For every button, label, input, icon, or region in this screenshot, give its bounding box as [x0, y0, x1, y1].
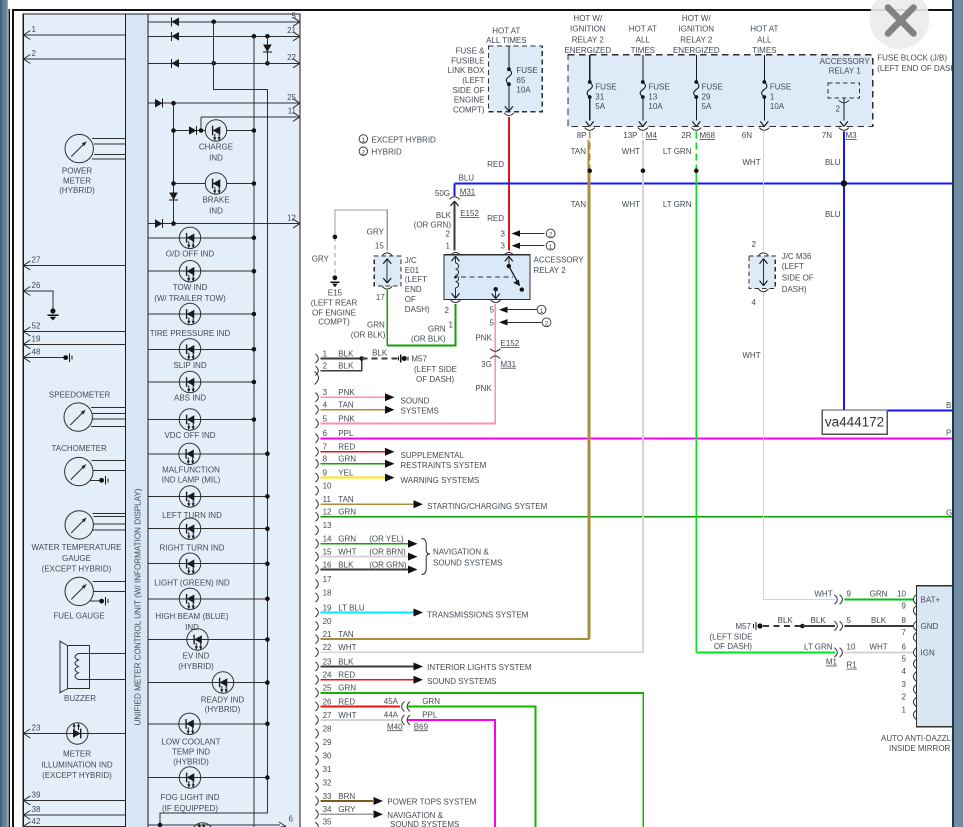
- wire x213 vertical with step: [214, 22, 268, 90]
- svg-text:GRN: GRN: [422, 697, 440, 706]
- svg-text:M31: M31: [501, 360, 517, 369]
- svg-text:24: 24: [323, 671, 332, 680]
- WHT wire R1 to mirror IGN: [845, 651, 914, 653]
- svg-text:16: 16: [323, 560, 332, 569]
- svg-text:BLK: BLK: [338, 349, 354, 358]
- svg-text:COMPT): COMPT): [318, 318, 350, 327]
- unified meter control unit bar: [126, 14, 149, 827]
- pin 38 wire: [23, 814, 125, 816]
- svg-text:M31: M31: [460, 187, 476, 196]
- svg-text:25: 25: [323, 684, 332, 693]
- svg-text:GRN: GRN: [367, 321, 385, 330]
- svg-text:ENGINE: ENGINE: [454, 96, 485, 105]
- pin26 RED wire: [321, 706, 401, 708]
- svg-text:11: 11: [323, 495, 332, 504]
- svg-text:17: 17: [323, 575, 332, 584]
- svg-text:6: 6: [902, 643, 907, 652]
- svg-text:WHT: WHT: [742, 351, 760, 360]
- svg-text:6: 6: [289, 815, 294, 824]
- svg-text:(LEFT: (LEFT: [782, 262, 804, 271]
- svg-text:SOUND SYSTEMS: SOUND SYSTEMS: [427, 677, 496, 686]
- svg-text:(OR GRN): (OR GRN): [414, 220, 452, 229]
- svg-text:38: 38: [32, 805, 41, 814]
- bottom link wire: [160, 813, 267, 825]
- svg-text:SOUND SYSTEMS: SOUND SYSTEMS: [433, 559, 502, 568]
- svg-text:IND: IND: [209, 206, 223, 215]
- svg-text:(LEFT SIDE: (LEFT SIDE: [414, 365, 457, 374]
- svg-text:SIDE OF: SIDE OF: [452, 86, 484, 95]
- svg-text:(OR GRN): (OR GRN): [369, 560, 407, 569]
- svg-text:SOUND SYSTEMS: SOUND SYSTEMS: [390, 820, 459, 827]
- svg-text:FUSE: FUSE: [702, 83, 723, 92]
- svg-text:BLK: BLK: [811, 616, 827, 625]
- 44A connector arcs: [402, 715, 405, 725]
- svg-text:(LEFT REAR: (LEFT REAR: [311, 298, 358, 307]
- svg-text:TAN: TAN: [571, 147, 587, 156]
- svg-text:DASH): DASH): [405, 305, 430, 314]
- svg-text:22: 22: [323, 643, 332, 652]
- svg-text:15: 15: [375, 241, 384, 250]
- svg-text:PNK: PNK: [475, 384, 492, 393]
- bus B vertical: [266, 89, 268, 813]
- svg-text:(OR BRN): (OR BRN): [369, 547, 406, 556]
- svg-text:5A: 5A: [702, 102, 712, 111]
- svg-text:WHT: WHT: [869, 643, 887, 652]
- svg-text:SYSTEMS: SYSTEMS: [401, 406, 439, 415]
- pin23 BLK wire: [321, 666, 414, 668]
- svg-text:PNK: PNK: [338, 388, 355, 397]
- 45A connector arcs: [402, 702, 405, 712]
- svg-text:ACCESSORY: ACCESSORY: [820, 57, 871, 66]
- svg-text:26: 26: [32, 281, 41, 290]
- svg-text:21: 21: [287, 26, 296, 35]
- power meter gauge: [65, 134, 93, 162]
- svg-text:GND: GND: [921, 622, 939, 631]
- svg-text:4: 4: [752, 298, 757, 307]
- svg-text:19: 19: [32, 334, 41, 343]
- svg-text:1: 1: [32, 25, 37, 34]
- svg-text:32: 32: [323, 778, 332, 787]
- LIGHT (GREEN) IND row: [148, 563, 267, 565]
- svg-text:METER: METER: [63, 750, 91, 759]
- svg-text:29: 29: [702, 92, 711, 101]
- svg-text:MALFUNCTION: MALFUNCTION: [162, 465, 220, 474]
- svg-text:8P: 8P: [577, 131, 587, 140]
- BLU wire from 7N: [843, 132, 845, 411]
- EV IND row: [148, 639, 267, 641]
- svg-text:4: 4: [902, 667, 907, 676]
- svg-text:(IF EQUIPPED): (IF EQUIPPED): [162, 804, 218, 813]
- svg-text:1: 1: [361, 137, 365, 144]
- pin25 feed bus: [173, 103, 175, 223]
- svg-text:M1: M1: [826, 658, 838, 667]
- pin 26 wire to ground: [23, 291, 53, 309]
- svg-text:5: 5: [490, 306, 495, 315]
- svg-text:FUSE: FUSE: [648, 83, 669, 92]
- pin 48 connector glyph: [63, 353, 72, 361]
- svg-text:44A: 44A: [384, 711, 399, 720]
- relay coil: [456, 256, 459, 298]
- svg-text:NAVIGATION &: NAVIGATION &: [433, 548, 489, 557]
- svg-text:FOG LIGHT IND: FOG LIGHT IND: [161, 793, 220, 802]
- GRN (OR BLK) wire from J/C E01: [386, 290, 388, 345]
- pin9 YEL wire: [321, 477, 387, 479]
- pin21 TAN wire to fuse 8P: [321, 140, 589, 639]
- svg-text:45A: 45A: [384, 697, 399, 706]
- BLU wire turn right: [844, 409, 955, 411]
- WHT wire M36 to R1: [764, 293, 836, 600]
- svg-text:IGNITION: IGNITION: [679, 25, 715, 34]
- E15 ground symbol: [333, 275, 338, 280]
- water temperature gauge: [65, 511, 93, 539]
- right page strip: [952, 0, 963, 827]
- svg-text:TEMP IND: TEMP IND: [172, 748, 210, 757]
- LT GRN wire from 2R: [695, 132, 697, 171]
- svg-text:FUSE BLOCK (J/B): FUSE BLOCK (J/B): [877, 53, 947, 62]
- svg-text:3: 3: [323, 388, 328, 397]
- svg-text:va444172: va444172: [825, 415, 884, 430]
- svg-text:HOT W/: HOT W/: [573, 14, 603, 23]
- svg-text:(HYBRID): (HYBRID): [178, 662, 214, 671]
- svg-text:FUSE: FUSE: [770, 83, 791, 92]
- svg-text:3: 3: [501, 229, 506, 238]
- svg-text:8: 8: [323, 455, 328, 464]
- svg-text:(LEFT: (LEFT: [405, 275, 427, 284]
- svg-text:5: 5: [847, 616, 852, 625]
- svg-text:IND LAMP (MIL): IND LAMP (MIL): [162, 475, 221, 484]
- WHT wire from 13P: [642, 132, 644, 171]
- FOG LIGHT IND row: [148, 777, 267, 779]
- fuse 29: [695, 55, 697, 82]
- svg-text:BLU: BLU: [825, 158, 841, 167]
- svg-text:2: 2: [323, 362, 328, 371]
- diode on row 5: [172, 17, 180, 26]
- svg-text:SLIP IND: SLIP IND: [173, 361, 206, 370]
- svg-text:GAUGE: GAUGE: [62, 554, 91, 563]
- svg-text:8: 8: [902, 616, 907, 625]
- svg-text:50G: 50G: [435, 189, 450, 198]
- svg-text:OF: OF: [405, 295, 416, 304]
- svg-text:12: 12: [287, 213, 296, 222]
- svg-text:E01: E01: [405, 266, 420, 275]
- svg-text:2: 2: [361, 149, 365, 156]
- diode on row 25: [155, 99, 163, 108]
- svg-text:4: 4: [323, 401, 328, 410]
- svg-text:EV IND: EV IND: [183, 652, 210, 661]
- svg-text:(OR BLK): (OR BLK): [351, 330, 386, 339]
- svg-text:WHT: WHT: [622, 147, 640, 156]
- pin33 BRN wire: [321, 800, 374, 802]
- pin19 LT BLU wire: [321, 612, 415, 614]
- svg-text:10A: 10A: [516, 86, 531, 95]
- pin 23 wire: [23, 733, 125, 735]
- svg-text:TIMES: TIMES: [752, 46, 776, 55]
- svg-text:23: 23: [32, 724, 41, 733]
- diode segment row21-row22: [266, 36, 268, 63]
- svg-text:FUSE: FUSE: [516, 66, 537, 75]
- diode down on feed bus: [169, 193, 178, 201]
- pin3 PNK wire: [321, 396, 387, 398]
- svg-text:METER: METER: [63, 176, 91, 185]
- svg-text:TACHOMETER: TACHOMETER: [51, 444, 107, 453]
- svg-text:3: 3: [501, 242, 506, 251]
- pin8 GRN wire: [321, 463, 387, 465]
- svg-text:(LEFT: (LEFT: [462, 76, 484, 85]
- svg-text:19: 19: [323, 603, 332, 612]
- pin5 PNK wire: [321, 420, 496, 424]
- fuel gauge: [65, 577, 93, 605]
- svg-text:BLK: BLK: [338, 560, 354, 569]
- svg-text:HOT W/: HOT W/: [682, 14, 712, 23]
- svg-text:5: 5: [292, 12, 297, 21]
- MALFUNCTION IND LAMP row: [148, 453, 267, 455]
- svg-text:BLK: BLK: [871, 616, 887, 625]
- meter illumination indicator: [67, 723, 88, 744]
- pin7 RED wire: [321, 451, 387, 453]
- svg-text:18: 18: [323, 588, 332, 597]
- svg-text:INTERIOR LIGHTS SYSTEM: INTERIOR LIGHTS SYSTEM: [427, 663, 532, 672]
- svg-text:GRN: GRN: [338, 535, 356, 544]
- svg-text:(W/ TRAILER TOW): (W/ TRAILER TOW): [154, 294, 226, 303]
- svg-text:27: 27: [323, 711, 332, 720]
- svg-text:ALL: ALL: [636, 35, 651, 44]
- svg-text:E15: E15: [328, 288, 343, 297]
- pin26 GRN wire down: [408, 707, 536, 827]
- svg-text:(LEFT SIDE: (LEFT SIDE: [710, 633, 753, 642]
- pin 39 wire: [23, 799, 125, 801]
- svg-text:15: 15: [323, 547, 332, 556]
- pin34 GRY wire: [321, 813, 374, 815]
- svg-text:E152: E152: [460, 209, 479, 218]
- relay dashed link: [461, 276, 513, 278]
- bus A vertical: [253, 36, 255, 827]
- svg-text:GRY: GRY: [338, 805, 356, 814]
- svg-text:O/D OFF IND: O/D OFF IND: [166, 250, 215, 259]
- svg-text:23: 23: [323, 657, 332, 666]
- svg-text:J/C M36: J/C M36: [782, 252, 812, 261]
- svg-text:7: 7: [323, 443, 328, 452]
- node dots top rows: [211, 20, 216, 25]
- pin12 GRN long wire: [321, 516, 956, 518]
- svg-text:BRN: BRN: [338, 792, 355, 801]
- svg-text:RELAY 2: RELAY 2: [680, 35, 713, 44]
- svg-text:AUTO ANTI-DAZZLING: AUTO ANTI-DAZZLING: [881, 734, 963, 743]
- svg-text:WARNING SYSTEMS: WARNING SYSTEMS: [401, 476, 480, 485]
- svg-text:10: 10: [323, 482, 332, 491]
- svg-text:M3: M3: [846, 131, 858, 140]
- svg-text:7N: 7N: [822, 131, 832, 140]
- svg-text:CHARGE: CHARGE: [199, 142, 233, 151]
- GRN wire R1 to mirror BAT+: [845, 599, 914, 601]
- J/C E01 connector box: [382, 253, 392, 256]
- svg-text:NAVIGATION &: NAVIGATION &: [387, 811, 443, 820]
- svg-text:6: 6: [323, 429, 328, 438]
- svg-text:J/C: J/C: [405, 256, 417, 265]
- svg-text:13P: 13P: [623, 131, 637, 140]
- BLK (OR GRN) wire to relay: [454, 201, 456, 251]
- fuse 13: [642, 55, 644, 82]
- left page strip: [0, 0, 8, 827]
- svg-text:TAN: TAN: [338, 630, 354, 639]
- svg-text:2: 2: [446, 229, 451, 238]
- svg-text:RIGHT TURN IND: RIGHT TURN IND: [159, 544, 224, 553]
- svg-text:ENERGIZED: ENERGIZED: [673, 46, 720, 55]
- pin27 WHT wire: [321, 719, 401, 721]
- M31 connector 50G: [450, 197, 460, 200]
- svg-text:HOT AT: HOT AT: [750, 25, 778, 34]
- svg-text:GRN: GRN: [338, 455, 356, 464]
- svg-text:(HYBRID): (HYBRID): [59, 186, 95, 195]
- svg-text:TOW IND: TOW IND: [173, 283, 208, 292]
- svg-text:ALL TIMES: ALL TIMES: [486, 36, 526, 45]
- svg-text:7: 7: [902, 628, 907, 637]
- svg-text:GRY: GRY: [312, 255, 330, 264]
- svg-text:25: 25: [287, 93, 296, 102]
- svg-text:PPL: PPL: [422, 711, 438, 720]
- svg-text:BRAKE: BRAKE: [202, 195, 229, 204]
- charge ind row: [174, 130, 254, 132]
- svg-text:35: 35: [323, 818, 332, 827]
- WHT wire from 6N: [763, 132, 765, 251]
- svg-text:LT GRN: LT GRN: [663, 200, 692, 209]
- svg-text:2: 2: [752, 240, 757, 249]
- svg-text:5A: 5A: [595, 102, 605, 111]
- exit connector arcs under J/B: [585, 128, 595, 131]
- svg-text:1: 1: [449, 321, 454, 330]
- svg-text:DASH): DASH): [782, 285, 807, 294]
- diagram frame left border: [12, 9, 14, 827]
- pin11 TAN wire: [321, 503, 414, 505]
- svg-text:28: 28: [323, 724, 332, 733]
- svg-text:ILLUMINATION IND: ILLUMINATION IND: [41, 760, 113, 769]
- svg-text:UNIFIED METER CONTROL UNIT (W/: UNIFIED METER CONTROL UNIT (W/ INFORMATI…: [133, 488, 142, 725]
- pin numbers: [323, 349, 332, 826]
- svg-text:9: 9: [847, 589, 852, 598]
- fuse block (J/B) box: [568, 55, 873, 127]
- svg-text:10A: 10A: [770, 102, 785, 111]
- pin24 RED wire: [321, 679, 414, 681]
- svg-text:IGNITION: IGNITION: [570, 25, 606, 34]
- GRY wire bridge: [335, 210, 387, 251]
- nav systems brace: [422, 539, 431, 575]
- ground symbol: [48, 308, 59, 320]
- BLU main horizontal wire: [455, 182, 956, 184]
- svg-text:LINK BOX: LINK BOX: [448, 66, 486, 75]
- svg-text:3G: 3G: [481, 360, 492, 369]
- svg-text:LOW COOLANT: LOW COOLANT: [161, 738, 220, 747]
- mirror pin brackets: [913, 595, 916, 720]
- svg-text:WHT: WHT: [338, 547, 356, 556]
- svg-text:WHT: WHT: [814, 589, 832, 598]
- svg-text:END: END: [405, 285, 422, 294]
- svg-text:GRN: GRN: [338, 508, 356, 517]
- svg-text:SPEEDOMETER: SPEEDOMETER: [49, 390, 111, 399]
- va444172 label box: [822, 410, 887, 434]
- svg-text:TAN: TAN: [338, 401, 354, 410]
- RED wire fuse65 to relay: [508, 117, 510, 251]
- HIGH BEAM (BLUE) IND row: [148, 598, 267, 600]
- svg-text:2R: 2R: [681, 131, 691, 140]
- svg-text:POWER TOPS SYSTEM: POWER TOPS SYSTEM: [387, 798, 476, 807]
- LEFT TURN IND row: [148, 495, 267, 497]
- svg-text:14: 14: [323, 535, 332, 544]
- pin 19 wire: [23, 343, 125, 345]
- svg-text:29: 29: [323, 738, 332, 747]
- pin 27 wire: [23, 264, 125, 266]
- svg-text:ABS IND: ABS IND: [174, 394, 206, 403]
- svg-text:2: 2: [549, 232, 553, 239]
- fuse 65: [508, 46, 510, 69]
- svg-text:12: 12: [323, 508, 332, 517]
- diode on row 22: [172, 59, 180, 68]
- pin15 WHT (OR BRN) wire: [321, 556, 410, 558]
- BLU drop to M31: [453, 183, 455, 196]
- SLIP IND row: [148, 348, 254, 350]
- svg-text:PPL: PPL: [338, 429, 354, 438]
- svg-text:LT GRN: LT GRN: [663, 147, 692, 156]
- svg-text:(LEFT END OF DASH): (LEFT END OF DASH): [877, 64, 959, 73]
- svg-text:31: 31: [323, 765, 332, 774]
- svg-text:BAT+: BAT+: [921, 596, 941, 605]
- pin brackets: [315, 354, 319, 827]
- svg-text:PNK: PNK: [475, 334, 492, 343]
- charge indicator LED: [205, 120, 226, 141]
- svg-text:22: 22: [287, 53, 296, 62]
- O/D OFF IND row: [148, 237, 254, 239]
- svg-text:OF DASH): OF DASH): [416, 375, 455, 384]
- svg-text:RELAY 2: RELAY 2: [572, 35, 605, 44]
- hybrid legend: [359, 135, 436, 157]
- svg-text:20: 20: [323, 617, 332, 626]
- brake indicator LED: [205, 173, 226, 194]
- svg-text:HOT AT: HOT AT: [492, 26, 520, 35]
- buzzer: [60, 641, 125, 692]
- TIRE PRESSURE IND row: [148, 313, 254, 315]
- READY IND row: [148, 682, 267, 684]
- svg-text:9: 9: [902, 602, 907, 611]
- svg-text:5: 5: [902, 655, 907, 664]
- svg-text:RELAY 2: RELAY 2: [534, 266, 567, 275]
- svg-text:2: 2: [902, 693, 907, 702]
- svg-text:1: 1: [902, 705, 907, 714]
- relay pin5 pink wire down: [494, 304, 496, 347]
- svg-text:6N: 6N: [742, 131, 752, 140]
- svg-text:26: 26: [323, 697, 332, 706]
- svg-text:BLK: BLK: [338, 657, 354, 666]
- M1/R1 connector brackets: [834, 595, 842, 657]
- svg-text:LT GRN: LT GRN: [804, 643, 833, 652]
- TOW IND row: [148, 270, 254, 272]
- svg-text:ENERGIZED: ENERGIZED: [564, 46, 611, 55]
- pin 52 wire: [23, 331, 125, 333]
- instrument cluster panel body: [23, 14, 300, 827]
- pin4 TAN wire: [321, 409, 387, 411]
- svg-text:TRANSMISSIONS SYSTEM: TRANSMISSIONS SYSTEM: [427, 610, 529, 619]
- pin27 PPL wire down: [408, 720, 495, 827]
- svg-text:BLU: BLU: [459, 174, 475, 183]
- svg-text:HOT AT: HOT AT: [629, 25, 657, 34]
- ABS IND row: [148, 381, 254, 383]
- svg-text:2: 2: [545, 320, 549, 327]
- svg-text:13: 13: [648, 92, 657, 101]
- svg-text:TAN: TAN: [338, 495, 354, 504]
- svg-text:1: 1: [549, 244, 553, 251]
- svg-text:3: 3: [902, 680, 907, 689]
- svg-text:65: 65: [516, 76, 525, 85]
- svg-text:M57: M57: [411, 354, 427, 363]
- relay switch: [508, 256, 510, 265]
- svg-text:LEFT TURN IND: LEFT TURN IND: [162, 511, 222, 520]
